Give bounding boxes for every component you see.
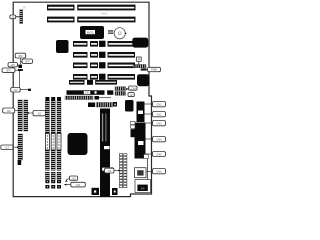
wire hook (pill to SIMM) (66, 179, 70, 181)
label pill (top-left) (10, 15, 16, 19)
svg-text:KB: KB (141, 186, 145, 190)
right label pill 3 (153, 121, 166, 126)
left pin header A (18, 100, 22, 131)
serial header B (striped) (115, 92, 126, 96)
wire w/ arrow (long pill left) (66, 184, 71, 186)
label pill B (cluster) (22, 59, 33, 63)
SIMM sockets (middle outlined section) (45, 134, 61, 151)
label pill COM2 (128, 93, 134, 97)
slot row 5 segment c (108, 63, 136, 69)
slot row 6 segment a (73, 74, 88, 80)
svg-text:CN6: CN6 (156, 170, 162, 174)
svg-text:BIOS: BIOS (87, 31, 94, 35)
BIOS chip U1 (80, 26, 104, 39)
svg-text:JP4: JP4 (10, 63, 15, 67)
slot row 6 segment b (90, 74, 98, 80)
right label pill 2 (153, 112, 166, 117)
ISA slot 2 (short segment) (47, 17, 75, 23)
black square (left of bar2) (131, 129, 136, 137)
keyboard connector KBD (135, 180, 151, 193)
jumper cluster block (18, 65, 23, 71)
chip between slots row 3 (99, 41, 106, 47)
label pill (right of headers) (33, 111, 46, 116)
svg-text:J16: J16 (76, 183, 81, 187)
wire w/ arrow to single header (13, 146, 18, 148)
svg-text:J9: J9 (23, 6, 27, 10)
slot row 7 chip (87, 80, 93, 85)
svg-text:CN1: CN1 (156, 103, 162, 107)
VRM bar 1 (right vertical black bar) (137, 102, 145, 123)
label pill A (cluster) (15, 53, 26, 58)
wire (pill to serial headers) (126, 88, 130, 91)
VRM bar 2 (135, 123, 146, 159)
floppy connector bar (row 9) (65, 96, 111, 100)
left pin header B (24, 100, 28, 131)
controller chip U6 (125, 100, 134, 112)
tiny chip (right of power header) (113, 102, 117, 107)
right label pill 1 (153, 102, 166, 107)
slot row 3 segment a (73, 41, 88, 47)
IDE connector bar (row 8) (67, 90, 114, 95)
keyboard controller socket (135, 168, 146, 178)
dark segment on header (18, 160, 22, 165)
label pill (y88) (11, 88, 21, 93)
serial header A (striped) (115, 87, 126, 91)
svg-text:J10: J10 (7, 109, 12, 113)
chip between slots row 5 (99, 62, 106, 68)
chip between slots row 4 (99, 52, 106, 58)
svg-text:COM: COM (130, 86, 136, 90)
ISA slot 2 (long segment) (77, 17, 135, 23)
svg-text:CN3: CN3 (156, 122, 162, 126)
jumper JP1 (below U3) (137, 57, 142, 65)
svg-text:JP5: JP5 (6, 68, 11, 72)
chip between slots row 6 (99, 74, 106, 80)
svg-text:J14: J14 (107, 169, 112, 173)
SIMM sockets (lower group) (45, 150, 61, 189)
wire w/ arrow (pill to header B) (29, 112, 33, 114)
white box (bottom right of bar2) (144, 154, 149, 158)
slot row 4 segment c (108, 52, 136, 58)
label pill (bottom center small) (69, 176, 77, 180)
svg-text:J13: J13 (13, 88, 18, 92)
fan connector header (horizontal striped) (133, 65, 146, 68)
connector J9 (top-left vertical header) (20, 10, 23, 24)
label pill (left edge, points to headers) (3, 108, 15, 113)
slot row 4 segment a (73, 52, 88, 58)
right label pill 4 (153, 137, 166, 142)
front panel header grid (119, 154, 127, 188)
right label pill 5 (153, 152, 166, 157)
speaker connector (bottom, right sq) (112, 188, 118, 195)
slot row 5 segment b (90, 63, 98, 69)
battery BT1 (114, 28, 126, 39)
slot row 5 segment a (73, 63, 88, 69)
power connector header (striped) (96, 103, 113, 108)
label pill (points to grid) (105, 168, 115, 173)
svg-text:JP3: JP3 (25, 59, 30, 63)
power connector sq (left end) (88, 103, 95, 108)
single pin header (left, lower) (18, 134, 23, 160)
wire (edge vertical below bar2) (147, 159, 149, 183)
wire (cluster down to pill) (18, 71, 20, 88)
voltage regulator chip U4 (right) (137, 74, 149, 86)
slot row 6 segment c (108, 74, 136, 80)
right label pill 6 (153, 169, 166, 174)
slot row 3 segment c (108, 41, 136, 47)
slot row 3 segment b (90, 41, 98, 47)
svg-text:ISA1: ISA1 (101, 11, 108, 15)
slot row 7 segment a (69, 80, 85, 85)
svg-text:J15: J15 (71, 177, 76, 181)
svg-text:PWR: PWR (151, 68, 157, 72)
svg-text:CN5: CN5 (156, 153, 162, 157)
small component (end of wire) (28, 89, 31, 91)
label pill (right, power) (148, 67, 161, 71)
label pill D (cluster) (2, 68, 15, 72)
label pill (left edge y146) (1, 145, 13, 150)
board outline (13, 2, 151, 196)
wire to component (20, 89, 28, 91)
svg-text:J12: J12 (5, 146, 10, 150)
riser slot (vertical bar) (100, 109, 113, 198)
label pill C (cluster) (8, 63, 18, 67)
speaker connector (bottom, left sq) (92, 188, 100, 195)
wires (cluster) (20, 58, 22, 64)
SIMM sockets (upper group) (45, 97, 61, 134)
CPU support chip U3 (top right) (132, 38, 148, 48)
ISA slot 1 (long segment) (77, 5, 135, 11)
label pill COM1 (129, 86, 138, 90)
white boxes (left of bar2) (131, 121, 135, 128)
slot row 4 segment b (90, 52, 98, 58)
chipset U2 (left of slot rows) (56, 40, 69, 53)
svg-text:CN2: CN2 (156, 113, 162, 117)
small connector stub (141, 68, 147, 70)
svg-text:IDE: IDE (85, 92, 90, 95)
ISA slot 1 (short segment) (47, 5, 75, 11)
svg-text:JP2: JP2 (18, 54, 23, 58)
CPU chip U5 (68, 133, 88, 155)
slot row 7 segment b (95, 80, 117, 85)
svg-text:J11: J11 (37, 112, 42, 116)
label pill (bottom center long) (71, 182, 86, 187)
battery connector pins (108, 30, 113, 33)
svg-text:CN4: CN4 (156, 138, 162, 142)
wire (label to J9) (16, 16, 20, 18)
